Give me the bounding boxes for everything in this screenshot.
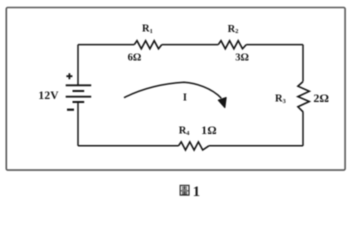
figure frame	[6, 8, 345, 171]
current arrow	[124, 82, 221, 98]
wire bottom (left segment)	[78, 145, 179, 147]
wire bottom (right segment)	[209, 145, 303, 147]
svg-text:3Ω: 3Ω	[235, 52, 249, 63]
minus sign	[67, 109, 74, 111]
battery B1 plate short	[73, 90, 85, 92]
svg-text:R1: R1	[142, 24, 153, 35]
wire top (left segment to R1)	[78, 44, 134, 46]
battery B1 plate short bottom	[73, 101, 85, 103]
plus sign	[66, 73, 72, 79]
wire left (top segment above battery)	[77, 45, 79, 85]
resistor R4	[179, 142, 209, 150]
svg-text:R3: R3	[275, 94, 286, 105]
wire right (top segment)	[302, 45, 304, 82]
resistor R1	[134, 41, 162, 49]
wire top (R2 to right corner)	[246, 44, 303, 46]
svg-text:1: 1	[193, 184, 201, 200]
wire right (bottom segment)	[302, 112, 304, 146]
svg-text:6Ω: 6Ω	[128, 52, 142, 63]
svg-text:2Ω: 2Ω	[313, 91, 329, 105]
resistor R3	[298, 82, 309, 112]
battery B1 plate long bottom	[66, 96, 92, 98]
svg-text:R4: R4	[179, 126, 191, 137]
svg-text:12V: 12V	[38, 90, 59, 102]
battery B1 plate long top	[66, 84, 92, 86]
svg-text:1Ω: 1Ω	[201, 125, 217, 137]
wire top (between R1 and R2)	[162, 44, 219, 46]
svg-text:I: I	[183, 93, 187, 104]
resistor R2	[218, 41, 246, 49]
svg-text:R2: R2	[228, 24, 239, 35]
caption glyph tu (figure)	[180, 185, 189, 195]
current arrowhead	[218, 98, 226, 108]
wire left (bottom segment below battery)	[77, 102, 79, 146]
